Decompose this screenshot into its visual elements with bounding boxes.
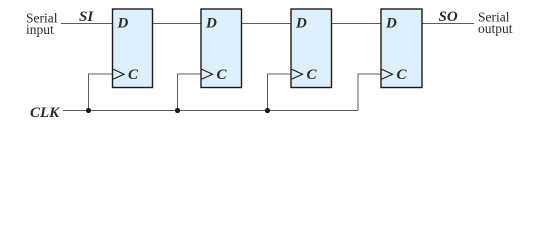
- svg-text:C: C: [307, 67, 318, 83]
- svg-text:C: C: [217, 67, 228, 83]
- svg-text:SI: SI: [79, 9, 94, 25]
- svg-text:SO: SO: [439, 9, 458, 25]
- svg-text:C: C: [128, 67, 139, 83]
- svg-text:CLK: CLK: [30, 105, 60, 121]
- svg-text:D: D: [205, 16, 217, 32]
- svg-text:C: C: [397, 67, 408, 83]
- svg-text:output: output: [478, 21, 513, 36]
- svg-text:D: D: [295, 16, 307, 32]
- svg-text:D: D: [385, 16, 397, 32]
- svg-text:D: D: [117, 16, 129, 32]
- svg-text:input: input: [26, 22, 54, 37]
